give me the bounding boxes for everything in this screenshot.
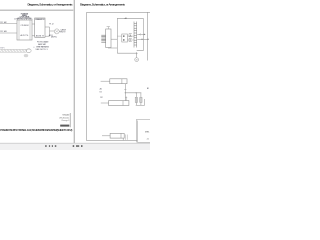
junction dot w1 bbox=[144, 34, 145, 35]
wire W2 into box bbox=[0, 32, 17, 34]
R3 divider bbox=[120, 133, 122, 138]
contact hooks at ladder bbox=[129, 34, 132, 42]
svg-text:TM 11-5820: TM 11-5820 bbox=[62, 115, 69, 117]
connector circle P1 bbox=[54, 29, 59, 34]
svg-text:6: 6 bbox=[34, 47, 35, 49]
bottom right revision block line bbox=[69, 113, 71, 127]
left page header rule bbox=[0, 9, 73, 11]
capacitor C1 bbox=[135, 97, 137, 102]
vertical wire from R1 bbox=[124, 84, 126, 101]
svg-text:287-35/2-14.1: 287-35/2-14.1 bbox=[59, 117, 69, 119]
svg-text:J1 P1: J1 P1 bbox=[14, 19, 18, 21]
junction dot bbox=[125, 92, 126, 93]
svg-text:A2CB1 T3: A2CB1 T3 bbox=[36, 34, 44, 37]
connector circle inner marks bbox=[55, 30, 59, 33]
shielded cable run bbox=[0, 49, 27, 52]
junction dot mid bbox=[136, 92, 137, 93]
resistor row 1 lead bbox=[101, 80, 110, 82]
breaker box CB1 bbox=[35, 18, 45, 37]
arrow on wire 1 bbox=[140, 34, 141, 36]
cable end connector bbox=[26, 49, 31, 53]
motor B1 circle bbox=[135, 58, 139, 62]
K1 contact dot 2 bbox=[123, 39, 125, 41]
cable end connector detail bbox=[27, 49, 31, 52]
resistor row 2 lead bbox=[101, 102, 109, 104]
revision dark bar bbox=[60, 125, 69, 127]
svg-text:AL25 T5L: AL25 T5L bbox=[21, 34, 29, 37]
R2 divider bbox=[122, 101, 124, 106]
R1 divider bbox=[121, 79, 123, 84]
C1 bottom stub bbox=[135, 102, 137, 105]
bar glyph 2 bbox=[49, 145, 50, 147]
svg-text:Diagrams, Schematics, or Arran: Diagrams, Schematics, or Arrangements bbox=[28, 2, 73, 6]
cross tick on vertical bbox=[124, 89, 126, 91]
svg-text:ASSY 1A2: ASSY 1A2 bbox=[38, 43, 46, 46]
stub above R2 bbox=[125, 97, 127, 101]
svg-text:ME1: ME1 bbox=[145, 132, 150, 134]
transformer T1 cap stub bbox=[107, 27, 110, 29]
resistor R1 box bbox=[110, 79, 127, 84]
output wire 1 bbox=[137, 33, 145, 35]
R3 bottom tick bbox=[122, 138, 124, 140]
bar top border bbox=[0, 142, 150, 144]
svg-text:B1: B1 bbox=[147, 88, 149, 90]
T1 bottom wire bbox=[108, 47, 117, 49]
svg-text:P/O 1A3: P/O 1A3 bbox=[0, 30, 6, 33]
wire jog vertical bbox=[49, 27, 51, 36]
inner dashed box A1 bbox=[117, 18, 143, 53]
drawing frame bbox=[87, 12, 150, 140]
C2 bottom stub bbox=[140, 102, 142, 105]
link wire top between boxes bbox=[32, 23, 35, 25]
svg-text:WIRE HARNESS: WIRE HARNESS bbox=[36, 46, 49, 49]
wire from CB1 to connector bbox=[45, 35, 50, 37]
junction dot w2b bbox=[147, 39, 148, 40]
link wire bottom between boxes bbox=[32, 35, 35, 37]
double vertical right of R3 bbox=[126, 135, 128, 140]
svg-text:W4 P2: W4 P2 bbox=[60, 32, 65, 34]
page background bbox=[0, 0, 150, 150]
horizontal wire y93 bbox=[125, 92, 141, 94]
svg-text:BREAKER PN: BREAKER PN bbox=[35, 18, 45, 21]
svg-text:P/O 1A2: P/O 1A2 bbox=[0, 21, 6, 24]
cable assy text block bbox=[36, 40, 50, 51]
U1 inner wall right bbox=[29, 20, 31, 40]
transformer T1 body bbox=[106, 29, 111, 48]
K1 contact dot 1 bbox=[123, 35, 125, 37]
bar glyph 5 bbox=[73, 145, 75, 147]
C1 top stub bbox=[135, 93, 137, 98]
svg-text:R2: R2 bbox=[100, 97, 102, 99]
T1 mid output wire bbox=[111, 38, 117, 40]
resistor row 3 lead bbox=[102, 135, 110, 137]
terminal ticks left of T1 bbox=[101, 35, 105, 42]
connector box U1 bbox=[17, 20, 32, 40]
svg-text:POWER SUPPLY PANEL 1A2, SCHEMA: POWER SUPPLY PANEL 1A2, SCHEMATIC DIAGRA… bbox=[0, 128, 72, 132]
bar background bbox=[0, 144, 150, 151]
junction dot w2a bbox=[141, 39, 142, 40]
title block bbox=[136, 120, 150, 143]
svg-text:P/O W1 CABLE: P/O W1 CABLE bbox=[37, 40, 49, 43]
connector stub right bbox=[59, 30, 60, 32]
relay K1 contacts bbox=[122, 34, 128, 42]
wire W1 into box bbox=[0, 23, 17, 25]
contact dots bbox=[130, 35, 131, 36]
svg-text:Change 3: Change 3 bbox=[61, 120, 69, 122]
resistor R3 box bbox=[110, 133, 124, 138]
K1 stub wires bbox=[117, 36, 134, 40]
svg-text:SEE NOTE 3: SEE NOTE 3 bbox=[36, 49, 48, 51]
svg-text:A1: A1 bbox=[100, 88, 102, 91]
right vertical stub bbox=[144, 99, 146, 105]
wire from CB1 top to connector bbox=[45, 26, 50, 28]
page divider bbox=[73, 0, 75, 143]
C1 fill hatch bbox=[135, 98, 137, 102]
svg-text:K2: K2 bbox=[100, 91, 102, 93]
title text block above box U1 bbox=[18, 13, 32, 20]
svg-text:P1 J2: P1 J2 bbox=[49, 23, 53, 25]
bar glyph 7 bbox=[81, 145, 83, 147]
faint smudge mark bbox=[24, 54, 28, 57]
bar glyph 1 bbox=[45, 145, 46, 147]
bar glyph 6 bbox=[76, 145, 79, 147]
wire jog horizontal bbox=[50, 30, 55, 32]
bottom wire bbox=[136, 104, 145, 106]
C2 fill hatch bbox=[140, 98, 142, 102]
U1 inner wall left bbox=[18, 20, 20, 40]
output wire 2 bbox=[137, 38, 148, 40]
capacitor C2 bbox=[140, 97, 142, 102]
svg-text:C15 DN 24: C15 DN 24 bbox=[21, 25, 29, 27]
junction tick bbox=[135, 52, 137, 54]
C2 top stub bbox=[140, 93, 142, 98]
cable hatching bbox=[1, 49, 28, 52]
bar glyph 3 bbox=[52, 145, 53, 147]
bar glyph 4 bbox=[55, 145, 57, 147]
terminal board ladder bbox=[134, 22, 137, 48]
svg-text:Diagrams, Schematics, or Arran: Diagrams, Schematics, or Arrangements bbox=[80, 3, 125, 7]
svg-text:(W2P1): (W2P1) bbox=[51, 36, 57, 38]
resistor R2 box bbox=[109, 101, 129, 106]
wire to motor bbox=[136, 53, 138, 58]
bottom wire of box A1 bbox=[117, 52, 136, 54]
revision text lines bbox=[59, 115, 69, 122]
